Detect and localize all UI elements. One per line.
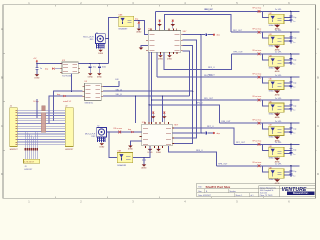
svg-text:RF2_O: RF2_O bbox=[205, 9, 212, 11]
wire output rail riser to X1 net bbox=[107, 39, 109, 64]
wire net RF_OUT7 bus bbox=[234, 143, 300, 145]
svg-text:ShufFX Part Mux: ShufFX Part Mux bbox=[206, 185, 231, 189]
frame row ticks and labels bbox=[3, 52, 5, 54]
jumper strip J3 bbox=[24, 159, 40, 163]
wire U3 out EN net stub bbox=[103, 85, 119, 87]
wire net RF_OUT3 bus bbox=[232, 53, 300, 55]
svg-text:AGND: AGND bbox=[136, 31, 142, 34]
svg-text:SN74LVC: SN74LVC bbox=[85, 103, 94, 105]
wire ESD pin1 to connector stem channel 8 bbox=[284, 171, 291, 173]
header interconnect wires bbox=[17, 109, 65, 111]
capacitor C4b bbox=[289, 84, 292, 86]
wire ESD pin1 to connector stem channel 4 bbox=[284, 82, 291, 84]
capacitor C20 on select V1 bbox=[201, 34, 205, 36]
wire ESD pin1 to connector stem channel 3 bbox=[284, 59, 291, 61]
ESD diode D5 above IC2 bbox=[163, 111, 165, 122]
svg-text:U$6: U$6 bbox=[269, 102, 272, 104]
svg-text:DGND: DGND bbox=[128, 149, 134, 151]
ESD protection chip U$3 channel 3 bbox=[269, 57, 284, 66]
wire RF4 feeder from IC1 bbox=[156, 52, 158, 77]
wire IC2 left pin to ground bbox=[130, 141, 141, 146]
svg-text:DGND: DGND bbox=[88, 76, 94, 78]
junction input cap bbox=[36, 63, 37, 64]
IC1 inner pin names bbox=[150, 34, 155, 36]
svg-text:RF8_OUT: RF8_OUT bbox=[218, 164, 228, 166]
ESD protection chip U$2 channel 2 bbox=[269, 35, 284, 44]
wire net RF_OUT1 bus bbox=[155, 10, 299, 12]
svg-text:dnp: dnp bbox=[45, 69, 48, 71]
svg-text:10p: 10p bbox=[293, 17, 296, 19]
no-connect marker channel 1 bbox=[258, 10, 261, 13]
no-connect marker channel 8 bbox=[258, 164, 261, 167]
svg-text:Size: Size bbox=[198, 191, 202, 193]
wire ESD pin2 to connector stem channel 2 bbox=[284, 40, 291, 42]
U3 inner text bbox=[86, 85, 91, 87]
capacitor C30 regulator input bbox=[36, 63, 38, 67]
svg-text:RF3_OUT: RF3_OUT bbox=[234, 52, 244, 54]
diode D30 before regulator bbox=[52, 67, 54, 69]
wire U$9 output bbox=[133, 147, 150, 158]
wire X1 to antenna ESD box bbox=[105, 18, 118, 39]
svg-text:10p: 10p bbox=[293, 150, 296, 152]
svg-text:RF out max: RF out max bbox=[253, 95, 262, 98]
ESD protection chip U$5 channel 5 bbox=[269, 103, 284, 112]
wire ESD pin2 to connector stem channel 3 bbox=[284, 62, 291, 64]
svg-text:X1: X1 bbox=[96, 32, 98, 34]
ESD protection chip U$1 channel 1 bbox=[269, 14, 284, 23]
wire mux chain vertical b bbox=[151, 52, 153, 124]
ground DGND below IC1 left bbox=[160, 54, 162, 55]
capacitor C2b bbox=[289, 39, 292, 41]
antenna ESD box U$9 bbox=[117, 153, 132, 163]
wire connector stem channel 3 bbox=[290, 54, 292, 65]
IC2 inner pin names bbox=[143, 127, 148, 129]
capacitor C8a bbox=[289, 169, 292, 171]
header J2 right strip bbox=[65, 108, 73, 147]
wire +5V to regulator bbox=[37, 62, 62, 64]
antenna ESD box U$8 bbox=[119, 16, 134, 26]
svg-text:RF6_OUT: RF6_OUT bbox=[221, 121, 231, 123]
svg-text:DGND: DGND bbox=[97, 76, 103, 78]
capacitor C6b bbox=[289, 130, 292, 132]
junction SEL riser bbox=[162, 95, 163, 96]
wire X2 branch down to ESD box bbox=[109, 132, 118, 158]
svg-text:D: D bbox=[317, 172, 319, 176]
ESD diode D4 above IC2 bbox=[152, 111, 154, 122]
connector X2 MCX jack body bbox=[97, 127, 107, 137]
wire ESD pin2 to connector stem channel 8 bbox=[284, 174, 291, 176]
junction output caps b bbox=[99, 63, 100, 64]
svg-text:DGND: DGND bbox=[98, 53, 104, 55]
wire second top bus to RF2 bbox=[165, 15, 231, 33]
svg-text:U$4: U$4 bbox=[269, 56, 272, 58]
svg-text:RF3_O: RF3_O bbox=[208, 67, 215, 69]
wire into ESD chip channel 4 bbox=[262, 77, 268, 83]
svg-text:AGND: AGND bbox=[275, 116, 281, 119]
junction channel 4 bbox=[290, 76, 291, 77]
wire ESD pin2 to connector stem channel 6 bbox=[284, 131, 291, 133]
title block row dividers bbox=[197, 188, 316, 190]
wire ground stem channel 4 bbox=[276, 90, 278, 91]
capacitor C1a bbox=[289, 15, 292, 17]
wire ESD pin2 to connector stem channel 4 bbox=[284, 85, 291, 87]
svg-text:B: B bbox=[1, 75, 3, 79]
svg-text:U$3: U$3 bbox=[269, 34, 272, 36]
svg-text:1u: 1u bbox=[293, 64, 295, 66]
svg-text:Date: 4/20/2017: Date: 4/20/2017 bbox=[198, 194, 211, 197]
IC1 left pins bbox=[146, 34, 148, 36]
wire EN riser bbox=[118, 81, 120, 87]
wire into ESD chip channel 2 bbox=[262, 32, 268, 38]
svg-text:U$8: U$8 bbox=[269, 146, 272, 148]
svg-text:B: B bbox=[317, 75, 319, 79]
resistor R1 top pad bbox=[42, 106, 45, 111]
IC2 right pins bbox=[172, 127, 174, 129]
level shifter U3 body bbox=[85, 83, 102, 100]
clamp diode D3 at U$8 output bbox=[138, 21, 140, 22]
wire bank riser to jumper field bbox=[24, 131, 26, 159]
junction channel 5 bbox=[290, 99, 291, 100]
svg-text:RF7_O: RF7_O bbox=[207, 126, 214, 128]
svg-text:1u: 1u bbox=[293, 154, 295, 156]
wire IC2 select stub bbox=[172, 132, 201, 134]
U3 pins bbox=[83, 85, 85, 87]
wire EN riser to IC2 bbox=[135, 96, 137, 123]
svg-text:A: A bbox=[317, 27, 319, 31]
wire ESD pin1 to connector stem channel 1 bbox=[284, 16, 291, 18]
ground DGND below IC2 left bbox=[149, 148, 151, 149]
svg-text:dnp: dnp bbox=[135, 19, 138, 21]
junction output caps a bbox=[90, 63, 91, 64]
svg-text:U$2: U$2 bbox=[269, 13, 272, 15]
diode D21 on select V1 at IC2 bbox=[207, 132, 212, 134]
resistor R1 vertical bbox=[41, 113, 45, 133]
capacitor C4a bbox=[289, 81, 292, 83]
wire ground stem channel 6 bbox=[276, 136, 278, 137]
wire ESD pin1 to connector stem channel 5 bbox=[284, 105, 291, 107]
junction U$8 output bbox=[138, 20, 139, 21]
svg-text:DGND: DGND bbox=[99, 146, 105, 148]
regulator pins bbox=[60, 63, 62, 65]
wire ESD pin2 to connector stem channel 5 bbox=[284, 108, 291, 110]
capacitor C22 at U$9 output bbox=[143, 158, 145, 160]
ESD protection chip U$4 channel 4 bbox=[269, 80, 284, 89]
no-connect marker channel 6 bbox=[258, 122, 261, 125]
svg-text:DGND: DGND bbox=[158, 58, 164, 60]
capacitor C1b bbox=[289, 19, 292, 21]
wire RF6 feeder from IC2 bbox=[149, 105, 219, 123]
power flag +5V bbox=[36, 60, 38, 62]
regulator IC2 body bbox=[62, 62, 78, 74]
wire ESD pin1 to connector stem channel 7 bbox=[284, 149, 291, 151]
ground below connector X2 bbox=[101, 142, 103, 143]
wire select line V1 bbox=[183, 34, 201, 36]
svg-text:RF5_OUT: RF5_OUT bbox=[204, 98, 214, 100]
svg-text:1u: 1u bbox=[293, 175, 295, 177]
wire select line V2 bbox=[172, 40, 196, 138]
IC2 bottom pins bbox=[145, 146, 147, 148]
regulator inner text bbox=[63, 63, 68, 65]
ground below connector X1 bbox=[100, 49, 102, 50]
svg-text:10p: 10p bbox=[293, 105, 296, 107]
junction U$9 output bbox=[143, 157, 144, 158]
svg-text:RF out max: RF out max bbox=[253, 49, 262, 52]
wire ESD pin1 to connector stem channel 6 bbox=[284, 128, 291, 130]
junction select V1 IC2 bbox=[200, 132, 201, 133]
wire connector stem channel 2 bbox=[290, 32, 292, 43]
svg-text:BGA6589: BGA6589 bbox=[119, 27, 129, 30]
junction select V3 with U3 bbox=[192, 91, 193, 92]
svg-text:RF out max: RF out max bbox=[253, 7, 262, 10]
svg-text:AGND: AGND bbox=[275, 93, 281, 96]
junction channel 1 bbox=[290, 11, 291, 12]
wire net RF_OUT2 bus bbox=[231, 31, 300, 33]
wire bank riser a bbox=[36, 99, 38, 118]
svg-text:RF out max: RF out max bbox=[253, 72, 262, 75]
wire net RF_OUT8 bus bbox=[216, 165, 299, 167]
svg-text:1u: 1u bbox=[293, 21, 295, 23]
svg-text:U$7: U$7 bbox=[269, 125, 272, 127]
svg-text:2x UFL: 2x UFL bbox=[275, 98, 283, 100]
IC2 top pins bbox=[144, 122, 146, 124]
title block column dividers bbox=[258, 186, 260, 197]
svg-text:TLV70233: TLV70233 bbox=[62, 76, 72, 78]
wire IC1 pin to RF1 bus riser bbox=[154, 11, 156, 30]
svg-text:1u: 1u bbox=[293, 87, 295, 89]
svg-text:10p: 10p bbox=[293, 171, 296, 173]
IC1 right pins bbox=[181, 34, 183, 36]
wire connector stem channel 1 bbox=[290, 11, 292, 22]
ESD diode D2 above IC1 bbox=[172, 19, 174, 28]
svg-text:RF6_O: RF6_O bbox=[196, 103, 203, 105]
ground for C30 bbox=[35, 74, 40, 76]
ground C32 bbox=[97, 73, 102, 75]
diode D31 on input B bbox=[63, 95, 65, 97]
svg-text:Plano, TX 75074: Plano, TX 75074 bbox=[260, 195, 273, 197]
capacitor C31 bbox=[89, 64, 91, 66]
svg-text:2x UFL: 2x UFL bbox=[275, 142, 283, 144]
svg-text:Research Inc.: Research Inc. bbox=[293, 192, 309, 195]
wire connector stem channel 8 bbox=[290, 166, 292, 177]
ESD protection chip U$8 channel 8 bbox=[269, 169, 284, 178]
svg-text:install 1-2: install 1-2 bbox=[63, 100, 71, 103]
wire mux chain vertical a bbox=[148, 52, 150, 124]
svg-text:RF out max: RF out max bbox=[253, 118, 262, 121]
ground for D3 bbox=[137, 29, 142, 31]
svg-text:X2: X2 bbox=[97, 126, 99, 128]
no-connect marker channel 7 bbox=[258, 143, 261, 146]
svg-text:U$9: U$9 bbox=[269, 167, 272, 169]
svg-text:SKY: SKY bbox=[174, 124, 179, 126]
wire RF3 feeder from IC1 bbox=[164, 52, 231, 69]
capacitor C6a bbox=[289, 127, 292, 129]
wire net RF_OUT5 bus bbox=[152, 99, 300, 101]
connector X2 shield pins bbox=[97, 137, 99, 142]
ground DGND below IC1 right bbox=[169, 54, 171, 55]
ESD protection chip U$7 channel 7 bbox=[269, 147, 284, 156]
no-connect marker channel 2 bbox=[258, 31, 261, 34]
wire ESD pin2 to connector stem channel 1 bbox=[284, 19, 291, 21]
svg-text:2x UFL: 2x UFL bbox=[275, 75, 283, 77]
junction channel 8 bbox=[290, 165, 291, 166]
capacitor C7b bbox=[289, 152, 292, 154]
svg-text:BGA6589: BGA6589 bbox=[117, 164, 127, 167]
ground AGND channel 7 bbox=[274, 158, 280, 161]
wire regulator output rail bbox=[78, 63, 108, 65]
sheet frame border bbox=[3, 5, 316, 199]
svg-text:10p: 10p bbox=[293, 83, 296, 85]
no-connect marker channel 4 bbox=[258, 76, 261, 79]
junction channel 2 bbox=[290, 32, 291, 33]
wire connector stem channel 4 bbox=[290, 77, 292, 88]
no-connect marker channel 5 bbox=[258, 99, 261, 102]
header J1 left strip bbox=[10, 108, 18, 147]
connector X1 shield pins bbox=[95, 44, 97, 49]
svg-text:HDR2X7: HDR2X7 bbox=[65, 149, 74, 151]
svg-text:10p: 10p bbox=[293, 129, 296, 131]
junction RF6 feeder bbox=[148, 104, 149, 105]
wire into ESD chip channel 1 bbox=[262, 11, 268, 17]
svg-text:10p: 10p bbox=[293, 59, 296, 61]
svg-text:1u: 1u bbox=[293, 42, 295, 44]
svg-text:SEL_A: SEL_A bbox=[116, 88, 123, 91]
junction RF5 feeder bbox=[151, 99, 152, 100]
svg-text:Sheet: 1: Sheet: 1 bbox=[236, 194, 243, 197]
svg-text:RF out max: RF out max bbox=[253, 27, 262, 30]
wire RF8 feeder from IC2 bbox=[169, 146, 217, 166]
wire ESD pin2 to connector stem channel 7 bbox=[284, 152, 291, 154]
svg-text:of 1: of 1 bbox=[251, 195, 254, 197]
IC2 left pins bbox=[140, 131, 142, 133]
wire into ESD chip channel 5 bbox=[262, 100, 268, 106]
svg-text:1 2 3 4 5 6 7: 1 2 3 4 5 6 7 bbox=[24, 161, 34, 163]
wire U3 select A to mux bbox=[103, 90, 193, 92]
junction select V1 bbox=[200, 34, 201, 35]
svg-text:10p: 10p bbox=[293, 38, 296, 40]
svg-text:2x UFL: 2x UFL bbox=[275, 164, 283, 166]
wire ground stem channel 5 bbox=[276, 112, 278, 113]
no-connect marker X2 net bbox=[118, 131, 121, 134]
svg-text:1u: 1u bbox=[40, 68, 42, 70]
svg-text:RF out max: RF out max bbox=[253, 140, 262, 143]
capacitor C5a bbox=[289, 104, 292, 106]
svg-text:HDR2X7: HDR2X7 bbox=[10, 149, 19, 151]
junction channel 6 bbox=[290, 122, 291, 123]
junction channel 3 bbox=[290, 53, 291, 54]
wire into ESD chip channel 7 bbox=[262, 144, 268, 150]
wire U3 select B to mux bbox=[103, 95, 189, 97]
diode D20 on select V1 bbox=[207, 34, 212, 36]
svg-text:2x UFL: 2x UFL bbox=[275, 52, 283, 54]
capacitor C7a bbox=[289, 148, 292, 150]
svg-text:RF8_O: RF8_O bbox=[196, 150, 203, 152]
svg-text:C: C bbox=[317, 124, 319, 128]
wire net RF_OUT6 bus bbox=[219, 122, 299, 124]
connector X1 MCX jack body bbox=[96, 34, 106, 44]
wire into ESD chip channel 8 bbox=[262, 166, 268, 172]
junction channel 7 bbox=[290, 144, 291, 145]
wire ground stem channel 2 bbox=[276, 45, 278, 46]
wire into ESD chip channel 6 bbox=[262, 123, 268, 129]
mux IC1 body bbox=[148, 31, 181, 53]
svg-text:D: D bbox=[1, 172, 3, 176]
svg-text:DGND: DGND bbox=[167, 58, 173, 60]
wire RF7 feeder from IC2 bbox=[172, 128, 234, 144]
svg-text:dnp: dnp bbox=[128, 129, 131, 131]
svg-text:dnp: dnp bbox=[57, 94, 60, 96]
wire connector stem channel 5 bbox=[290, 100, 292, 111]
svg-text:2x UFL: 2x UFL bbox=[275, 30, 283, 32]
junction regulator gnd net bbox=[71, 91, 72, 92]
svg-text:RF in max: RF in max bbox=[114, 128, 123, 130]
svg-text:AGND: AGND bbox=[142, 167, 148, 170]
wire ESD pin1 to connector stem channel 2 bbox=[284, 37, 291, 39]
svg-text:100n: 100n bbox=[102, 66, 106, 68]
junction X2 wire bbox=[108, 131, 109, 132]
ground DGND below IC2 right bbox=[158, 148, 160, 149]
capacitor C3a bbox=[289, 58, 292, 60]
capacitor C3b bbox=[289, 61, 292, 63]
wire X2 to IC2 input bbox=[106, 131, 141, 133]
IC1 bottom pins bbox=[160, 52, 162, 54]
ground AGND channel 4 bbox=[274, 91, 280, 94]
svg-text:1u: 1u bbox=[293, 110, 295, 112]
svg-text:2x UFL: 2x UFL bbox=[275, 9, 283, 11]
svg-text:RF4_O: RF4_O bbox=[208, 75, 215, 77]
wire select line V4 bbox=[183, 51, 190, 96]
ESD protection chip U$6 channel 6 bbox=[269, 126, 284, 135]
ground IC1 left pin bbox=[139, 48, 144, 50]
svg-text:C: C bbox=[1, 124, 3, 128]
wire U3 input A from header bbox=[54, 91, 83, 121]
svg-text:DGND: DGND bbox=[156, 152, 162, 154]
svg-text:RF7_OUT: RF7_OUT bbox=[236, 142, 246, 144]
svg-text:SKY: SKY bbox=[183, 31, 188, 33]
svg-text:HDR1X7: HDR1X7 bbox=[24, 169, 33, 171]
frame column ticks and labels bbox=[54, 5, 56, 7]
capacitor C2a bbox=[289, 36, 292, 38]
svg-text:DGND: DGND bbox=[34, 77, 40, 79]
capacitor C21 on select V1 at IC2 bbox=[201, 132, 205, 134]
wire SEL riser to IC2 bbox=[161, 96, 163, 122]
svg-text:A: A bbox=[1, 27, 3, 31]
wire net RF_OUT4 bus bbox=[157, 76, 300, 78]
svg-text:Title:: Title: bbox=[198, 185, 203, 188]
wire ground stem channel 3 bbox=[276, 66, 278, 67]
ground IC2 left pin bbox=[128, 146, 133, 148]
junction X1 wire bbox=[108, 38, 109, 39]
svg-text:AGND: AGND bbox=[275, 70, 281, 73]
jumper field resistor pack bbox=[25, 148, 26, 150]
ground AGND channel 2 bbox=[274, 46, 280, 49]
svg-text:RF out max: RF out max bbox=[253, 161, 262, 164]
wire select line V3 bbox=[172, 45, 192, 143]
junction EN riser bbox=[135, 95, 136, 96]
svg-text:Number: Number bbox=[230, 191, 237, 193]
IC1 top pins bbox=[150, 28, 152, 30]
ESD diode D1 above IC1 bbox=[159, 19, 161, 28]
wire ground stem channel 1 bbox=[276, 24, 278, 25]
ground AGND channel 3 bbox=[274, 67, 280, 70]
svg-text:SEL_B: SEL_B bbox=[116, 94, 123, 96]
wire ground stem channel 8 bbox=[276, 178, 278, 179]
company logo bar bbox=[287, 192, 315, 195]
no-connect marker channel 3 bbox=[258, 53, 261, 56]
wire U$8 output to IC1 bbox=[134, 21, 148, 35]
mux IC2 body bbox=[142, 124, 173, 146]
wire IC1 left pin to ground bbox=[141, 45, 148, 47]
svg-text:U$5: U$5 bbox=[269, 79, 272, 81]
